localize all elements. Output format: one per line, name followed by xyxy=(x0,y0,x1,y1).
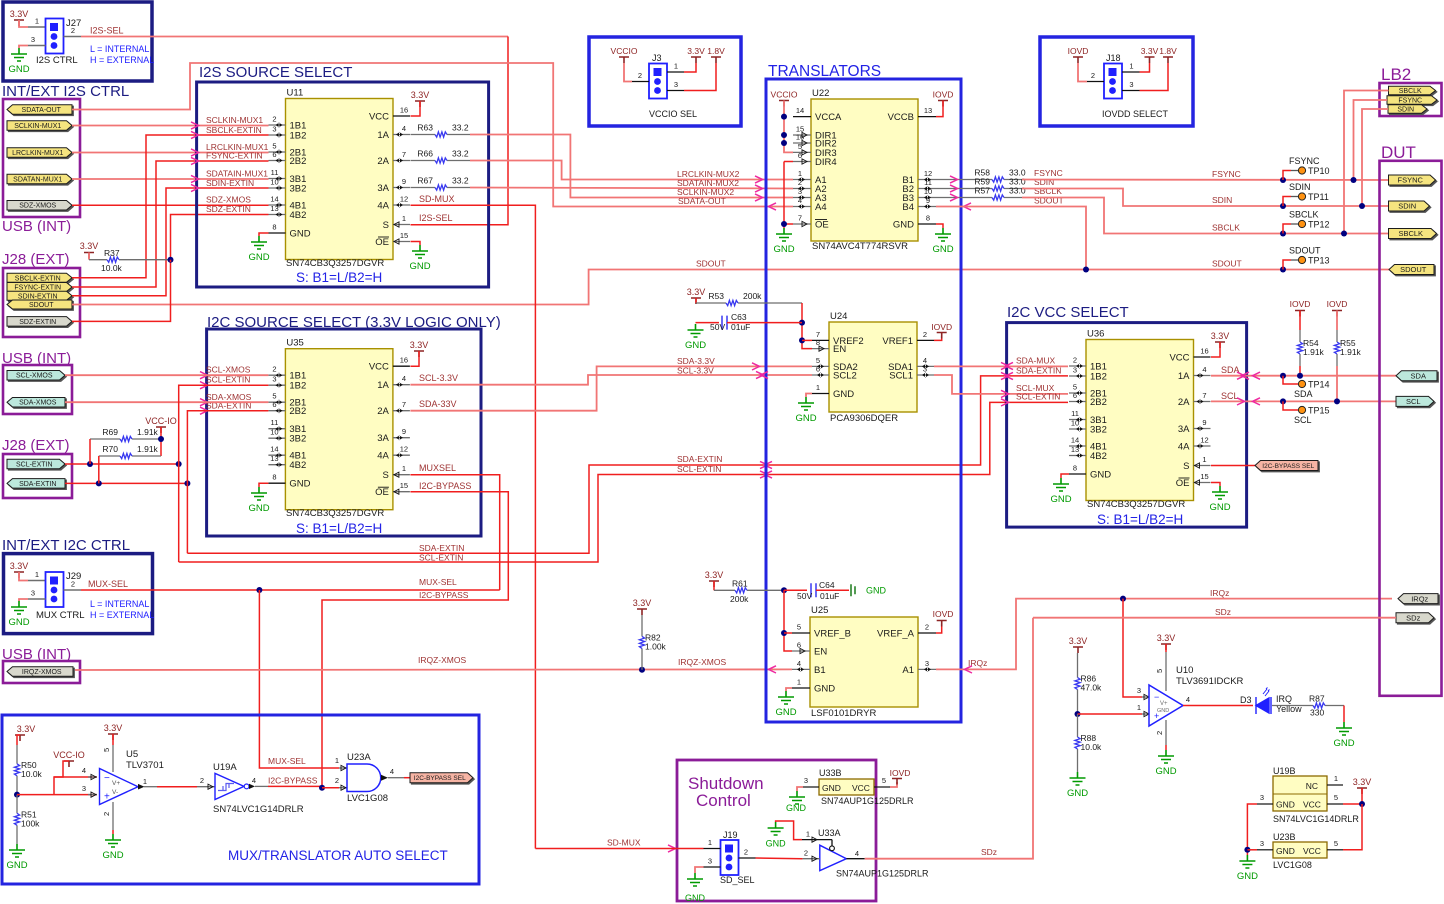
svg-text:FSYNC: FSYNC xyxy=(1212,169,1241,179)
svg-text:TP11: TP11 xyxy=(1308,192,1329,202)
svg-text:2: 2 xyxy=(1073,356,1077,365)
svg-text:4: 4 xyxy=(82,766,86,775)
svg-text:IOVD: IOVD xyxy=(1290,299,1311,309)
svg-text:47.0k: 47.0k xyxy=(1081,683,1103,693)
svg-text:01uF: 01uF xyxy=(820,591,839,601)
svg-text:FSYNC: FSYNC xyxy=(1398,176,1424,185)
svg-text:GND: GND xyxy=(1237,871,1258,882)
svg-text:C63: C63 xyxy=(731,312,747,322)
svg-text:S: S xyxy=(1183,461,1189,472)
svg-text:−: − xyxy=(1154,692,1159,702)
svg-text:2: 2 xyxy=(272,115,276,124)
svg-text:3: 3 xyxy=(31,35,35,44)
svg-text:GND: GND xyxy=(8,617,29,628)
svg-text:USB (INT): USB (INT) xyxy=(2,218,71,235)
svg-text:GND: GND xyxy=(786,803,807,813)
svg-text:SCL-EXTIN: SCL-EXTIN xyxy=(1016,392,1060,402)
svg-text:SDA-EXTIN: SDA-EXTIN xyxy=(19,481,56,488)
svg-text:SDz: SDz xyxy=(981,847,997,857)
svg-text:13: 13 xyxy=(1071,445,1079,454)
svg-text:16: 16 xyxy=(400,106,408,115)
svg-text:3: 3 xyxy=(798,187,802,196)
svg-text:9: 9 xyxy=(402,427,406,436)
svg-text:R70: R70 xyxy=(102,444,118,454)
svg-text:R63: R63 xyxy=(417,123,433,133)
svg-text:5: 5 xyxy=(1155,669,1164,673)
svg-text:R57: R57 xyxy=(974,186,990,196)
svg-text:1: 1 xyxy=(402,214,406,223)
svg-text:H = EXTERNAL: H = EXTERNAL xyxy=(90,610,154,620)
svg-text:GND: GND xyxy=(8,64,29,75)
svg-text:R53: R53 xyxy=(708,291,724,301)
svg-text:2B2: 2B2 xyxy=(290,156,307,167)
svg-text:SDA-EXTIN: SDA-EXTIN xyxy=(419,543,464,553)
svg-text:VCCIO SEL: VCCIO SEL xyxy=(649,109,697,119)
svg-text:GND: GND xyxy=(1050,494,1071,505)
svg-text:330: 330 xyxy=(1310,708,1324,718)
svg-text:3: 3 xyxy=(1260,793,1264,802)
svg-text:GND: GND xyxy=(795,413,816,424)
svg-text:SCL: SCL xyxy=(1221,391,1239,401)
svg-text:GND: GND xyxy=(1209,502,1230,513)
svg-text:S: S xyxy=(383,220,389,231)
svg-text:S: B1=L/B2=H: S: B1=L/B2=H xyxy=(1097,512,1183,527)
svg-text:5: 5 xyxy=(798,142,802,151)
svg-text:L = INTERNAL: L = INTERNAL xyxy=(90,599,149,609)
svg-text:SBCLK: SBCLK xyxy=(1289,210,1319,220)
svg-text:I2S CTRL: I2S CTRL xyxy=(36,55,78,66)
svg-text:2: 2 xyxy=(798,178,802,187)
svg-text:12: 12 xyxy=(400,445,408,454)
svg-text:SDZ-XMOS: SDZ-XMOS xyxy=(206,195,251,205)
svg-text:J18: J18 xyxy=(1106,53,1121,63)
svg-text:U36: U36 xyxy=(1087,329,1104,340)
svg-text:SDZ-EXTIN: SDZ-EXTIN xyxy=(19,319,56,326)
svg-text:EN: EN xyxy=(833,344,846,355)
svg-text:SDOUT: SDOUT xyxy=(1400,265,1427,274)
svg-text:5: 5 xyxy=(797,623,801,632)
svg-text:SDA-EXTIN: SDA-EXTIN xyxy=(1016,366,1061,376)
svg-text:GND: GND xyxy=(1157,708,1169,714)
svg-text:GND: GND xyxy=(290,229,311,240)
svg-text:3: 3 xyxy=(1260,839,1264,848)
svg-text:8: 8 xyxy=(926,214,930,223)
svg-text:1A: 1A xyxy=(1178,371,1190,382)
svg-text:3.3V: 3.3V xyxy=(10,561,29,571)
svg-text:U22: U22 xyxy=(812,88,829,99)
svg-text:I2C-BYPASS: I2C-BYPASS xyxy=(268,776,318,786)
svg-text:U19A: U19A xyxy=(213,762,237,773)
svg-text:11: 11 xyxy=(924,178,932,187)
svg-text:SDA: SDA xyxy=(1294,389,1313,399)
svg-text:3.3V: 3.3V xyxy=(687,287,706,297)
svg-text:GND: GND xyxy=(1276,846,1295,856)
svg-text:U33A: U33A xyxy=(818,828,841,838)
svg-text:SDz: SDz xyxy=(1215,607,1231,617)
svg-text:GND: GND xyxy=(248,252,269,263)
svg-text:I2C-BYPASS SEL: I2C-BYPASS SEL xyxy=(414,775,466,782)
svg-text:01uF: 01uF xyxy=(731,322,750,332)
svg-text:R69: R69 xyxy=(102,427,118,437)
svg-text:SDIN: SDIN xyxy=(1398,202,1416,211)
svg-text:2: 2 xyxy=(925,623,929,632)
svg-text:8: 8 xyxy=(1073,464,1077,473)
svg-text:MUXSEL: MUXSEL xyxy=(419,463,456,473)
svg-text:13: 13 xyxy=(270,204,278,213)
svg-text:2: 2 xyxy=(335,776,339,785)
svg-text:3.3V: 3.3V xyxy=(80,241,99,251)
svg-text:4: 4 xyxy=(390,767,394,776)
svg-text:4: 4 xyxy=(855,849,859,858)
svg-text:11: 11 xyxy=(1071,409,1079,418)
svg-text:SCL: SCL xyxy=(1406,397,1421,406)
svg-text:TRANSLATORS: TRANSLATORS xyxy=(768,63,881,80)
svg-text:7: 7 xyxy=(402,150,406,159)
svg-text:200k: 200k xyxy=(730,594,749,604)
svg-text:6: 6 xyxy=(272,150,276,159)
svg-text:14: 14 xyxy=(796,106,804,115)
svg-text:SDIN: SDIN xyxy=(1397,107,1414,114)
svg-text:5: 5 xyxy=(102,748,111,752)
svg-text:3: 3 xyxy=(804,776,808,785)
svg-text:15: 15 xyxy=(400,231,408,240)
svg-text:GND: GND xyxy=(248,503,269,514)
svg-text:EN: EN xyxy=(814,647,827,658)
svg-text:VCC-IO: VCC-IO xyxy=(145,416,177,426)
svg-text:7: 7 xyxy=(402,400,406,409)
svg-text:SCL-EXTIN: SCL-EXTIN xyxy=(419,553,463,563)
svg-text:SCL-3.3V: SCL-3.3V xyxy=(677,366,714,376)
svg-text:SN74CB3Q3257DGVR: SN74CB3Q3257DGVR xyxy=(286,508,384,519)
svg-text:GND: GND xyxy=(893,220,914,231)
svg-text:INT/EXT I2C CTRL: INT/EXT I2C CTRL xyxy=(2,537,130,554)
svg-text:SN74AUP1G125DRLR: SN74AUP1G125DRLR xyxy=(836,869,929,879)
svg-text:VREF1: VREF1 xyxy=(882,336,913,347)
svg-text:3: 3 xyxy=(674,80,678,89)
svg-text:IOVDD SELECT: IOVDD SELECT xyxy=(1102,109,1169,119)
svg-text:5: 5 xyxy=(1334,793,1338,802)
svg-text:U10: U10 xyxy=(1176,665,1193,676)
svg-text:1.91k: 1.91k xyxy=(137,444,159,454)
svg-text:2: 2 xyxy=(71,580,75,589)
svg-text:4: 4 xyxy=(252,776,256,785)
svg-text:SDA-33V: SDA-33V xyxy=(419,399,457,409)
svg-text:GND: GND xyxy=(1276,800,1295,810)
svg-text:GND: GND xyxy=(866,586,887,596)
svg-text:8: 8 xyxy=(272,223,276,232)
svg-text:I2C VCC SELECT: I2C VCC SELECT xyxy=(1007,304,1129,321)
svg-text:SDOUT: SDOUT xyxy=(1289,246,1321,256)
svg-text:Control: Control xyxy=(696,791,751,810)
svg-text:LB2: LB2 xyxy=(1381,65,1411,84)
svg-text:SD_SEL: SD_SEL xyxy=(720,875,755,885)
svg-text:VCC: VCC xyxy=(1303,846,1321,856)
svg-text:TP10: TP10 xyxy=(1308,166,1330,176)
svg-text:10: 10 xyxy=(270,428,278,437)
svg-text:9: 9 xyxy=(1202,418,1206,427)
svg-text:J28 (EXT): J28 (EXT) xyxy=(2,437,70,454)
svg-text:U33B: U33B xyxy=(819,768,842,778)
svg-text:3A: 3A xyxy=(377,183,389,194)
svg-text:11: 11 xyxy=(271,168,279,177)
svg-text:I2C-BYPASS: I2C-BYPASS xyxy=(419,590,469,600)
svg-text:+: + xyxy=(104,792,110,803)
svg-text:VCCB: VCCB xyxy=(888,112,914,123)
svg-text:SN74CB3Q3257DGVR: SN74CB3Q3257DGVR xyxy=(286,258,384,269)
svg-text:SDA-3.3V: SDA-3.3V xyxy=(677,356,715,366)
svg-text:SCLKIN-MUX1: SCLKIN-MUX1 xyxy=(14,123,61,130)
svg-text:MUX CTRL: MUX CTRL xyxy=(36,610,85,621)
svg-text:6: 6 xyxy=(272,400,276,409)
svg-text:6: 6 xyxy=(798,151,802,160)
svg-text:OE: OE xyxy=(815,220,829,231)
svg-text:GND: GND xyxy=(685,340,706,351)
svg-text:SDA: SDA xyxy=(1221,365,1240,375)
svg-text:SCL-XMOS: SCL-XMOS xyxy=(206,365,251,375)
svg-text:SDA: SDA xyxy=(1411,371,1426,380)
svg-text:SDA-MUX: SDA-MUX xyxy=(1016,356,1056,366)
svg-text:V+: V+ xyxy=(1160,701,1168,707)
svg-text:FSYNC: FSYNC xyxy=(1289,156,1320,166)
svg-text:3.3V: 3.3V xyxy=(1069,636,1088,646)
svg-text:10.0k: 10.0k xyxy=(1081,742,1103,752)
svg-text:I2C-BYPASS: I2C-BYPASS xyxy=(419,481,471,491)
svg-text:SDATAN-MUX1: SDATAN-MUX1 xyxy=(13,177,62,184)
svg-text:U35: U35 xyxy=(286,338,303,349)
svg-text:9: 9 xyxy=(926,196,930,205)
svg-text:33.2: 33.2 xyxy=(452,176,469,186)
svg-text:8: 8 xyxy=(272,473,276,482)
svg-text:FSYNC-EXTIN: FSYNC-EXTIN xyxy=(206,151,263,161)
svg-text:SD-MUX: SD-MUX xyxy=(419,194,455,204)
svg-text:MUX-SEL: MUX-SEL xyxy=(419,577,457,587)
svg-text:2A: 2A xyxy=(377,156,389,167)
svg-text:VCCIO: VCCIO xyxy=(611,46,638,56)
svg-text:A4: A4 xyxy=(815,202,827,213)
svg-text:R67: R67 xyxy=(417,176,433,186)
svg-text:MUX/TRANSLATOR AUTO SELECT: MUX/TRANSLATOR AUTO SELECT xyxy=(228,848,448,863)
svg-text:1B2: 1B2 xyxy=(290,131,307,142)
svg-text:2A: 2A xyxy=(377,406,389,417)
svg-text:SDATA-OUT: SDATA-OUT xyxy=(22,107,62,114)
svg-text:3: 3 xyxy=(1129,80,1133,89)
svg-text:1: 1 xyxy=(402,464,406,473)
svg-text:4: 4 xyxy=(402,124,406,133)
svg-text:4B2: 4B2 xyxy=(290,210,307,221)
svg-text:GND: GND xyxy=(685,893,706,903)
svg-text:GND: GND xyxy=(102,850,123,861)
svg-text:14: 14 xyxy=(1071,436,1079,445)
svg-text:IOVD: IOVD xyxy=(931,322,952,332)
svg-text:TP13: TP13 xyxy=(1308,256,1330,266)
svg-text:10: 10 xyxy=(1071,419,1079,428)
svg-text:GND: GND xyxy=(775,707,796,718)
svg-text:3.3V: 3.3V xyxy=(1211,331,1230,341)
svg-text:SCL-EXTIN: SCL-EXTIN xyxy=(16,462,53,469)
svg-text:IRQ: IRQ xyxy=(1276,694,1292,704)
svg-text:SDIN: SDIN xyxy=(1212,195,1232,205)
svg-text:3.3V: 3.3V xyxy=(10,9,29,19)
svg-text:3: 3 xyxy=(272,375,276,384)
svg-text:4: 4 xyxy=(1202,365,1206,374)
svg-text:IOVD: IOVD xyxy=(1068,46,1089,56)
svg-text:R37: R37 xyxy=(104,248,120,258)
svg-text:4A: 4A xyxy=(377,451,389,462)
svg-text:R87: R87 xyxy=(1309,694,1325,704)
svg-text:SDATA-OUT: SDATA-OUT xyxy=(678,196,726,206)
svg-text:7: 7 xyxy=(1202,391,1206,400)
svg-text:15: 15 xyxy=(400,481,408,490)
svg-text:16: 16 xyxy=(400,356,408,365)
svg-text:IOVD: IOVD xyxy=(890,768,911,778)
svg-text:11: 11 xyxy=(271,418,279,427)
svg-text:SCL-EXTIN: SCL-EXTIN xyxy=(677,464,721,474)
svg-text:J3: J3 xyxy=(652,53,662,63)
svg-text:TLV3701: TLV3701 xyxy=(126,760,164,771)
svg-text:IOVD: IOVD xyxy=(933,90,954,100)
svg-text:B1: B1 xyxy=(814,665,826,676)
svg-text:1: 1 xyxy=(798,169,802,178)
svg-text:GND: GND xyxy=(822,783,841,793)
svg-text:VREF_B: VREF_B xyxy=(814,629,851,640)
svg-text:2: 2 xyxy=(923,330,927,339)
svg-text:U23A: U23A xyxy=(347,752,371,763)
svg-text:3.3V: 3.3V xyxy=(633,598,652,608)
svg-text:I2C-BYPASS SEL: I2C-BYPASS SEL xyxy=(1262,463,1314,470)
svg-text:50V: 50V xyxy=(797,591,812,601)
svg-text:3A: 3A xyxy=(377,433,389,444)
svg-text:4: 4 xyxy=(797,659,801,668)
svg-text:LVC1G08: LVC1G08 xyxy=(347,793,388,804)
svg-text:13: 13 xyxy=(924,106,932,115)
svg-text:4A: 4A xyxy=(1178,442,1190,453)
svg-text:GND: GND xyxy=(814,684,835,695)
svg-text:3.3V: 3.3V xyxy=(410,340,429,350)
svg-text:IOVD: IOVD xyxy=(1327,299,1348,309)
svg-text:IRQz: IRQz xyxy=(1411,594,1428,603)
svg-text:1: 1 xyxy=(674,62,678,71)
svg-text:NC: NC xyxy=(1306,781,1318,791)
svg-text:FSYNC-EXTIN: FSYNC-EXTIN xyxy=(14,285,61,292)
svg-text:15: 15 xyxy=(1200,472,1208,481)
svg-text:SN74AVC4T774RSVR: SN74AVC4T774RSVR xyxy=(812,241,908,252)
svg-text:200k: 200k xyxy=(743,291,762,301)
svg-text:A1: A1 xyxy=(902,665,914,676)
svg-text:DIR4: DIR4 xyxy=(815,157,837,168)
svg-text:S: S xyxy=(383,470,389,481)
svg-text:3: 3 xyxy=(925,659,929,668)
svg-text:SDIN: SDIN xyxy=(1289,182,1311,192)
svg-text:MUX-SEL: MUX-SEL xyxy=(268,756,306,766)
svg-text:1.8V: 1.8V xyxy=(707,46,725,56)
svg-text:SCL2: SCL2 xyxy=(833,371,857,382)
svg-text:OE: OE xyxy=(1176,478,1190,489)
svg-text:33.2: 33.2 xyxy=(452,149,469,159)
svg-text:9: 9 xyxy=(402,177,406,186)
svg-text:GND: GND xyxy=(766,839,787,849)
svg-text:SDOUT: SDOUT xyxy=(1212,259,1242,269)
svg-text:SN74LVC1G14DRLR: SN74LVC1G14DRLR xyxy=(1273,814,1359,824)
svg-text:TP14: TP14 xyxy=(1308,380,1330,390)
svg-text:8: 8 xyxy=(816,338,820,347)
svg-text:1: 1 xyxy=(1137,703,1141,712)
svg-text:33.0: 33.0 xyxy=(1009,186,1026,196)
svg-text:U5: U5 xyxy=(126,749,138,760)
svg-text:TP15: TP15 xyxy=(1308,406,1330,416)
svg-text:SDA-EXTIN: SDA-EXTIN xyxy=(677,454,722,464)
svg-text:SN74CB3Q3257DGVR: SN74CB3Q3257DGVR xyxy=(1087,499,1185,510)
svg-text:3.3V: 3.3V xyxy=(1157,633,1176,643)
svg-text:VCC: VCC xyxy=(369,362,389,373)
svg-text:10.0k: 10.0k xyxy=(21,769,43,779)
svg-text:3: 3 xyxy=(923,365,927,374)
svg-text:L = INTERNAL: L = INTERNAL xyxy=(90,44,149,54)
svg-text:4B2: 4B2 xyxy=(1090,451,1107,462)
svg-text:1: 1 xyxy=(797,678,801,687)
svg-text:7: 7 xyxy=(798,214,802,223)
svg-text:SDIN-EXTIN: SDIN-EXTIN xyxy=(18,293,58,300)
svg-text:1: 1 xyxy=(1334,774,1338,783)
svg-text:SBCLK-EXTIN: SBCLK-EXTIN xyxy=(206,125,262,135)
svg-text:1: 1 xyxy=(708,838,712,847)
svg-text:3: 3 xyxy=(1073,366,1077,375)
svg-text:IRQZ-XMOS: IRQZ-XMOS xyxy=(678,657,726,667)
svg-text:GND: GND xyxy=(6,860,27,871)
svg-text:SCL1: SCL1 xyxy=(889,371,913,382)
svg-text:GND: GND xyxy=(1090,470,1111,481)
svg-text:3.3V: 3.3V xyxy=(705,570,724,580)
svg-text:2: 2 xyxy=(200,776,204,785)
svg-text:LRCLKIN-MUX1: LRCLKIN-MUX1 xyxy=(12,150,63,157)
svg-text:VCCIO: VCCIO xyxy=(771,90,798,100)
svg-text:IOVD: IOVD xyxy=(933,609,954,619)
svg-text:LSF0101DRYR: LSF0101DRYR xyxy=(811,708,876,719)
svg-text:IRQz: IRQz xyxy=(1210,588,1229,598)
svg-text:MUX-SEL: MUX-SEL xyxy=(88,579,128,589)
svg-text:DUT: DUT xyxy=(1381,143,1416,162)
svg-text:1: 1 xyxy=(35,17,39,26)
svg-text:SBCLK-EXTIN: SBCLK-EXTIN xyxy=(15,275,61,282)
svg-text:LVC1G08: LVC1G08 xyxy=(1273,860,1312,870)
svg-text:1.91k: 1.91k xyxy=(1340,347,1362,357)
svg-text:2: 2 xyxy=(272,365,276,374)
svg-text:3: 3 xyxy=(82,784,86,793)
svg-text:1: 1 xyxy=(1129,62,1133,71)
svg-text:1: 1 xyxy=(143,777,147,786)
svg-text:13: 13 xyxy=(270,454,278,463)
svg-text:SDOUT: SDOUT xyxy=(696,259,726,269)
svg-text:PCA9306DQER: PCA9306DQER xyxy=(830,413,898,424)
svg-text:SBCLK: SBCLK xyxy=(1034,186,1062,196)
svg-text:4: 4 xyxy=(402,374,406,383)
svg-text:I2S-SEL: I2S-SEL xyxy=(90,26,124,36)
svg-text:SCLKIN-MUX1: SCLKIN-MUX1 xyxy=(206,115,263,125)
svg-text:GND: GND xyxy=(1333,738,1354,749)
svg-text:−: − xyxy=(104,773,110,784)
svg-text:SDz: SDz xyxy=(1406,613,1420,622)
svg-text:J19: J19 xyxy=(723,830,738,840)
svg-text:3.3V: 3.3V xyxy=(104,723,123,733)
svg-text:SBCLK: SBCLK xyxy=(1399,88,1422,95)
svg-text:1.91k: 1.91k xyxy=(1303,347,1325,357)
svg-text:B4: B4 xyxy=(902,202,914,213)
svg-text:1: 1 xyxy=(816,383,820,392)
svg-text:1B2: 1B2 xyxy=(1090,372,1107,383)
svg-text:VCC: VCC xyxy=(369,112,389,123)
svg-text:12: 12 xyxy=(1200,436,1208,445)
svg-text:GND: GND xyxy=(1155,766,1176,777)
svg-text:SN74LVC1G14DRLR: SN74LVC1G14DRLR xyxy=(213,804,304,815)
